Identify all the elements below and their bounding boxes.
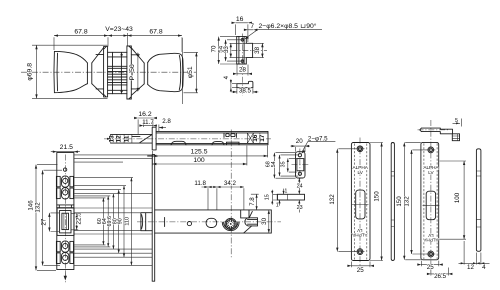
- dim 27: [49, 213, 59, 232]
- svg-text:7.8: 7.8: [249, 197, 256, 206]
- knob right grip: [148, 53, 184, 91]
- projection lines top: [74, 155, 152, 162]
- plate1 centerline: [359, 138, 361, 267]
- svg-text:1: 1: [276, 202, 279, 208]
- svg-text:LV: LV: [356, 228, 362, 233]
- dim 38.5: [232, 88, 259, 93]
- svg-text:φ69.8: φ69.8: [27, 63, 34, 81]
- front plate centerline: [64, 155, 66, 284]
- svg-text:100: 100: [454, 192, 461, 203]
- svg-text:22.5: 22.5: [76, 212, 83, 225]
- svg-text:54: 54: [271, 161, 277, 167]
- screw hole top: [63, 168, 66, 171]
- centerline latch axis: [104, 138, 271, 140]
- mounting bar top view: [277, 194, 304, 200]
- dim P=50: [137, 53, 139, 91]
- dim 1 bottom: [279, 200, 281, 206]
- knob left grip contour: [56, 53, 58, 91]
- dim phi69.8: [32, 45, 108, 98]
- extension line knob right face: [181, 38, 183, 104]
- dim 150 plate2: [404, 142, 421, 259]
- centerline vertical strike box: [241, 34, 243, 96]
- svg-text:5: 5: [455, 118, 458, 124]
- spindle edges: [113, 52, 122, 93]
- svg-text:21.5: 21.5: [60, 144, 73, 151]
- knob right bell: [131, 48, 144, 96]
- svg-text:33: 33: [223, 46, 230, 53]
- lock case centerline: [137, 221, 281, 223]
- plate2 slot: [426, 191, 435, 220]
- dim 54 endview: [280, 155, 299, 176]
- extension lines lower features: [74, 245, 152, 266]
- extension lines upper features: [74, 178, 152, 198]
- svg-text:16: 16: [236, 16, 244, 23]
- dim 68: [274, 153, 295, 179]
- svg-text:24: 24: [297, 183, 303, 189]
- svg-text:2.8: 2.8: [162, 118, 171, 125]
- plate1 outline: [351, 143, 370, 261]
- bracket centerline cross: [418, 129, 449, 131]
- spindle hole wings: [222, 222, 239, 230]
- centerline knob hub vertical: [230, 130, 232, 258]
- svg-text:26.5: 26.5: [434, 273, 447, 280]
- dim 100 latch: [152, 146, 247, 166]
- strike box side L profile: [237, 81, 253, 87]
- front plate outline: [57, 153, 74, 270]
- knob left grip: [54, 51, 87, 92]
- svg-text:132: 132: [329, 194, 336, 205]
- svg-text:12: 12: [467, 264, 474, 271]
- svg-text:17: 17: [259, 134, 266, 142]
- dim 54: [226, 40, 241, 61]
- dim 33: [230, 43, 247, 57]
- svg-text:27: 27: [41, 218, 48, 225]
- case small circle: [187, 222, 191, 226]
- svg-text:132: 132: [403, 196, 410, 207]
- dim 25 plate1: [351, 262, 370, 268]
- dim 5 bracket: [453, 119, 462, 127]
- svg-text:12: 12: [116, 135, 123, 143]
- svg-text:38: 38: [254, 46, 261, 53]
- dim 146: [36, 165, 58, 271]
- latch bolt arc: [142, 215, 143, 229]
- bottom slot group row1: [56, 241, 60, 251]
- svg-text:25: 25: [427, 264, 434, 271]
- latch bolt segment lines: [117, 134, 132, 143]
- dim 125.5: [152, 146, 267, 158]
- latch opening box: [57, 208, 74, 235]
- end view part body: [296, 152, 306, 178]
- divider step: [57, 205, 74, 208]
- dim 22.5: [71, 213, 78, 229]
- svg-text:20: 20: [296, 138, 303, 145]
- case inner tick: [164, 218, 166, 227]
- dim 16.2: [138, 118, 153, 134]
- dim 100 plate2: [440, 161, 467, 239]
- latch tail section: [247, 133, 260, 144]
- knob spindle gear hole: [226, 220, 235, 229]
- svg-text:67.8: 67.8: [74, 29, 87, 36]
- dim 16: [236, 23, 248, 42]
- strike box inner edges: [239, 36, 244, 64]
- svg-text:ALPHA: ALPHA: [422, 237, 438, 242]
- dim 80: [118, 190, 120, 254]
- hole bottom strike box: [241, 60, 244, 63]
- dim 150 plate1: [370, 143, 383, 261]
- screw dots housing: [121, 54, 123, 56]
- svg-text:16.2: 16.2: [138, 111, 151, 118]
- dim 11.8 and 34.2: [202, 187, 244, 210]
- dim 69.6: [112, 194, 114, 249]
- svg-text:90°: 90°: [306, 22, 317, 30]
- dim 60: [102, 198, 104, 245]
- svg-text:70: 70: [211, 45, 218, 52]
- dim 23: [298, 200, 300, 213]
- svg-text:2−φ6.2×φ8.5: 2−φ6.2×φ8.5: [259, 23, 299, 30]
- knob right face contour: [179, 55, 180, 89]
- knob left bell: [92, 48, 104, 96]
- svg-text:90: 90: [118, 218, 124, 224]
- svg-text:38.5: 38.5: [239, 88, 252, 95]
- svg-text:35: 35: [281, 161, 287, 167]
- lock case front plate: [148, 155, 158, 282]
- plate2 side profile strip: [476, 149, 481, 252]
- dim 132 plate2: [412, 150, 427, 254]
- svg-text:P=50: P=50: [129, 64, 136, 80]
- plate2 outline: [421, 142, 439, 259]
- dim 7: [248, 29, 254, 31]
- dim 12 and 4: [459, 241, 490, 265]
- svg-text:1: 1: [284, 189, 287, 195]
- dim 11.7: [143, 122, 153, 128]
- plate2 centerline: [430, 120, 432, 266]
- svg-text:30: 30: [261, 217, 268, 224]
- plate2 hole top: [428, 147, 434, 153]
- svg-text:15: 15: [265, 194, 271, 200]
- svg-text:11: 11: [123, 135, 130, 142]
- svg-text:ALPHA: ALPHA: [351, 233, 367, 238]
- strike box outline: [237, 36, 253, 64]
- dim 132: [43, 170, 62, 265]
- dim 25 plate2: [421, 261, 439, 267]
- latch body: [156, 131, 268, 144]
- rose right: [127, 46, 131, 99]
- plate1 hole top: [357, 146, 363, 152]
- extension lines top dims: [54, 33, 182, 52]
- lock case body: [155, 210, 272, 233]
- knob left neck: [87, 63, 91, 84]
- svg-text:34.2: 34.2: [224, 180, 237, 187]
- latch body bottom tabs: [171, 141, 239, 145]
- projection lines middle: [74, 208, 152, 234]
- dim 15: [272, 190, 277, 205]
- dim 4: [231, 79, 237, 92]
- svg-text:110: 110: [125, 217, 131, 226]
- svg-text:LV: LV: [358, 170, 364, 175]
- spindle housing between roses: [108, 52, 127, 93]
- bracket above plate2: [420, 128, 460, 141]
- dim 1 top: [283, 189, 285, 195]
- dim 20: [291, 146, 311, 152]
- rose left: [104, 47, 108, 97]
- plate2 bend lines: [424, 143, 437, 259]
- dim 24: [298, 178, 300, 194]
- svg-text:LV: LV: [428, 170, 434, 175]
- latch bolt case: [141, 213, 152, 231]
- dim phi51: [184, 52, 199, 92]
- dim 35: [288, 158, 297, 172]
- hole top strike box: [241, 39, 244, 42]
- svg-text:LV: LV: [427, 233, 433, 238]
- housing ribs: [108, 66, 127, 85]
- latch hub box: [224, 133, 236, 138]
- centerline knob axis: [21, 71, 196, 73]
- end view hole bottom: [298, 172, 301, 175]
- centerline horizontal strike box: [232, 49, 268, 51]
- plate1 slot: [356, 190, 365, 219]
- dim 7.8: [251, 194, 259, 210]
- dim 30: [268, 210, 270, 233]
- bottom slot group row2: [56, 253, 60, 264]
- top slot group row2: [56, 188, 60, 199]
- top slot group row1: [56, 176, 60, 186]
- latch bolt head: [111, 134, 153, 143]
- dim 90: [123, 186, 125, 258]
- svg-text:4: 4: [223, 75, 230, 79]
- end view hole top: [298, 154, 301, 157]
- svg-text:150: 150: [373, 191, 380, 202]
- svg-text:150: 150: [396, 196, 403, 207]
- svg-text:11.8: 11.8: [194, 180, 206, 187]
- dim 132 plate1: [337, 149, 356, 252]
- svg-text:125.5: 125.5: [190, 149, 207, 156]
- dim 28: [237, 65, 248, 76]
- dim 110: [130, 178, 132, 266]
- svg-text:28: 28: [239, 67, 246, 74]
- latch faceplate: [152, 127, 156, 150]
- svg-text:7: 7: [250, 23, 254, 30]
- svg-text:4: 4: [482, 264, 486, 271]
- view arrow bottom: [64, 272, 66, 277]
- plate1 bend lines: [355, 144, 367, 260]
- dim 70: [219, 37, 237, 64]
- dim 38: [253, 43, 264, 57]
- plate1 hole bottom: [357, 249, 363, 255]
- dim 26.5: [431, 268, 449, 276]
- plate1 side profile strip: [391, 143, 394, 261]
- svg-text:25: 25: [357, 267, 364, 274]
- svg-text:φ51: φ51: [187, 66, 194, 78]
- case right detail: [245, 218, 258, 226]
- svg-text:23: 23: [297, 205, 303, 211]
- latch bolt bevel diagonal: [132, 135, 152, 143]
- case trigger diagonals: [244, 211, 253, 233]
- svg-text:132: 132: [34, 202, 41, 213]
- dim 64: [107, 196, 109, 247]
- case notch top: [241, 210, 249, 218]
- knob right neck: [144, 63, 148, 85]
- end view centerlines: [299, 149, 301, 182]
- svg-text:V=23~43: V=23~43: [105, 26, 133, 33]
- svg-text:67.8: 67.8: [149, 29, 162, 36]
- dim 21.5: [51, 151, 80, 153]
- svg-text:11.7: 11.7: [142, 119, 154, 126]
- case obround hole: [206, 218, 217, 227]
- svg-text:16: 16: [252, 134, 259, 142]
- svg-text:100: 100: [193, 157, 205, 164]
- plate2 hole bottom: [428, 251, 434, 257]
- dim line 67.8 / V / 67.8: [54, 35, 182, 37]
- dim 2.8: [159, 125, 166, 132]
